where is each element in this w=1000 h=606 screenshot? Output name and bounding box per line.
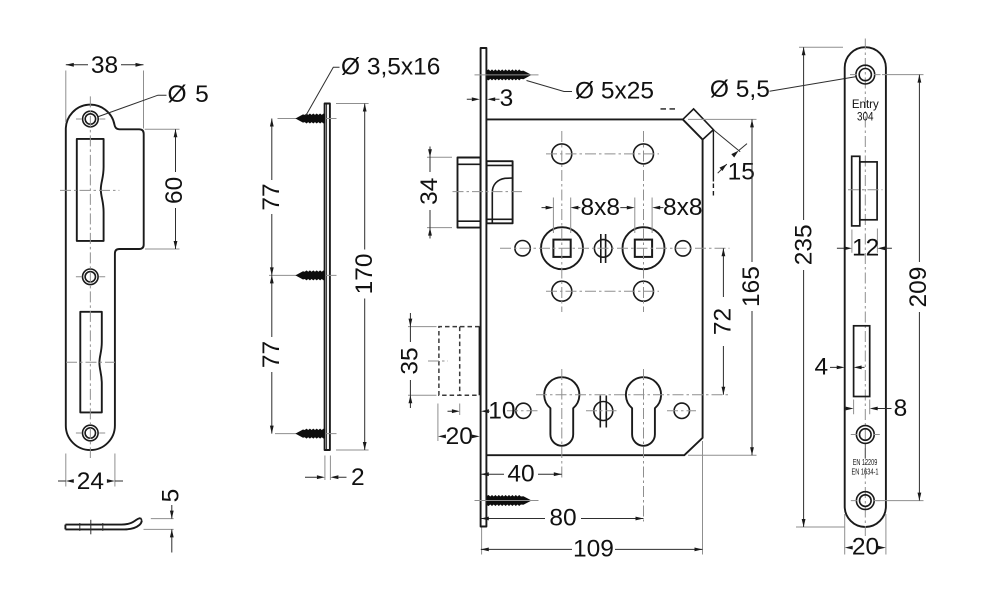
svg-text:40: 40 (507, 460, 534, 487)
svg-text:8x8: 8x8 (580, 194, 620, 221)
svg-text:235: 235 (790, 224, 817, 265)
svg-text:304: 304 (857, 112, 874, 124)
svg-text:20: 20 (852, 534, 879, 561)
svg-text:Entry: Entry (852, 99, 879, 111)
svg-text:10: 10 (488, 397, 515, 424)
svg-text:80: 80 (549, 505, 576, 532)
svg-text:72: 72 (710, 308, 737, 335)
svg-text:Ø 3,5x16: Ø 3,5x16 (341, 54, 440, 81)
svg-text:209: 209 (905, 267, 932, 308)
svg-text:60: 60 (161, 177, 188, 204)
svg-text:5: 5 (157, 489, 184, 503)
svg-text:Ø 5,5: Ø 5,5 (710, 76, 770, 103)
svg-text:77: 77 (258, 183, 285, 210)
svg-text:109: 109 (573, 536, 614, 563)
svg-text:4: 4 (814, 354, 828, 381)
svg-text:8x8: 8x8 (663, 194, 703, 221)
svg-text:170: 170 (351, 253, 378, 294)
svg-text:20: 20 (446, 423, 473, 450)
svg-text:15: 15 (728, 158, 755, 185)
svg-text:Ø 5x25: Ø 5x25 (575, 77, 654, 104)
svg-text:165: 165 (738, 266, 765, 307)
svg-text:12: 12 (852, 234, 879, 261)
svg-text:EN 12209: EN 12209 (853, 458, 878, 467)
svg-text:8: 8 (894, 395, 908, 422)
svg-text:34: 34 (416, 178, 443, 205)
svg-text:35: 35 (397, 347, 424, 374)
svg-text:77: 77 (258, 341, 285, 368)
svg-text:38: 38 (91, 52, 118, 79)
svg-text:24: 24 (77, 468, 104, 495)
svg-text:2: 2 (351, 464, 365, 491)
svg-text:3: 3 (500, 85, 514, 112)
svg-text:EN 1634-1: EN 1634-1 (852, 468, 879, 477)
